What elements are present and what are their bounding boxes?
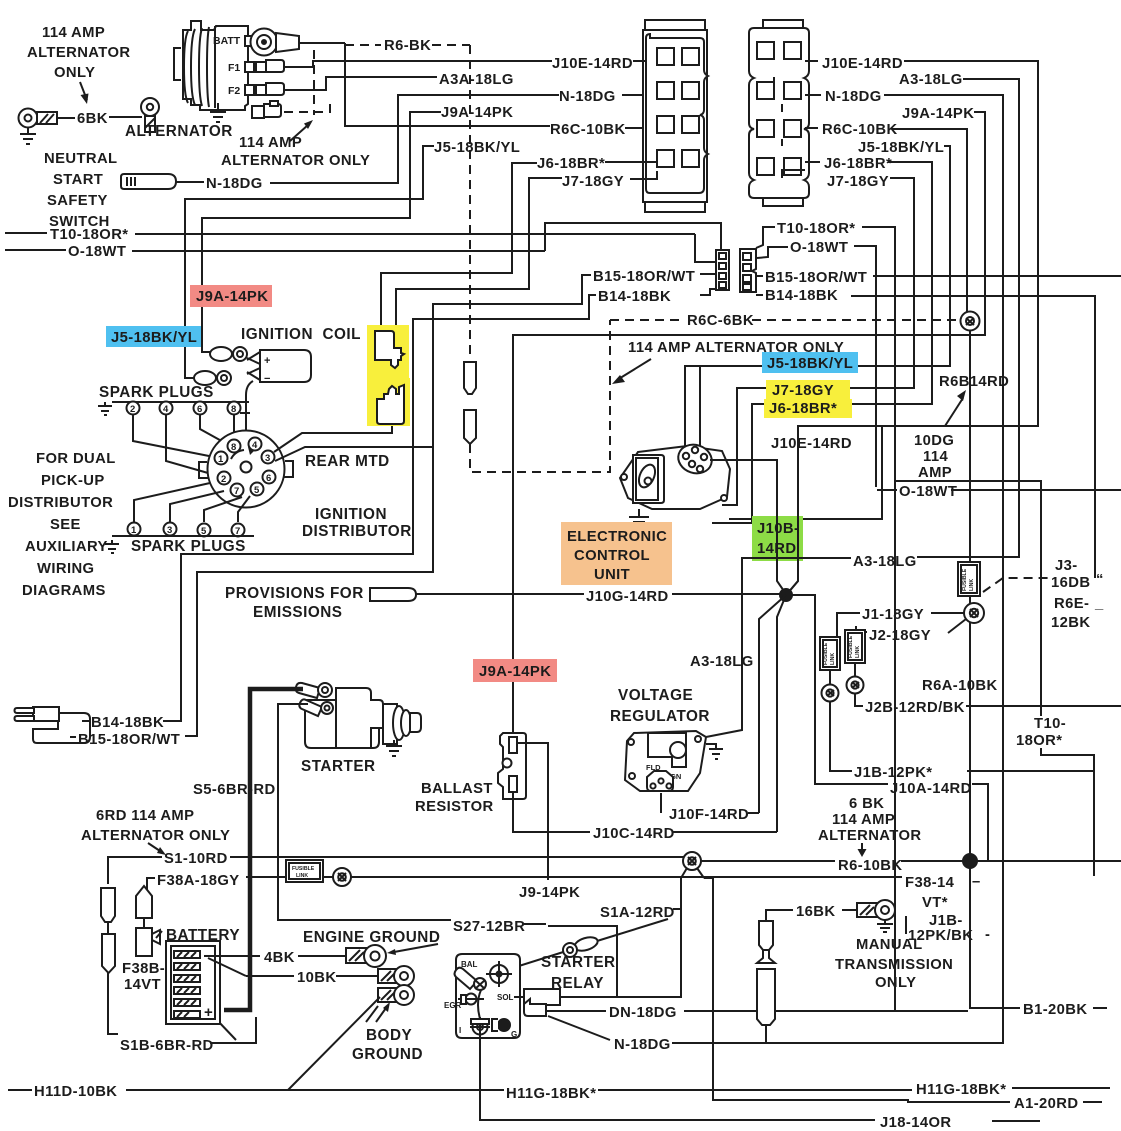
svg-text:–: – <box>972 874 981 890</box>
wire B15 right label stub <box>700 274 763 295</box>
arrow engine ground <box>387 944 438 955</box>
wire coil to distributor cap <box>246 381 253 455</box>
svg-text:ONLY: ONLY <box>54 65 95 81</box>
coil connector block (yellow highlight top) <box>367 325 409 378</box>
svg-text:J5-18BK/YL: J5-18BK/YL <box>858 140 944 156</box>
svg-text:J10E-14RD: J10E-14RD <box>822 56 903 72</box>
wire B14 left run <box>163 295 596 721</box>
wire capsule to J10G <box>416 593 584 595</box>
svg-text:AMP: AMP <box>918 465 952 481</box>
label STARTER RELAY <box>541 954 616 992</box>
svg-text:O-18WT: O-18WT <box>790 240 848 256</box>
wire J2B <box>855 693 1121 706</box>
svg-text:J1-18GY: J1-18GY <box>862 607 924 623</box>
svg-text:DISTRIBUTOR: DISTRIBUTOR <box>302 523 412 540</box>
ground spark plugs bottom <box>105 540 119 553</box>
wire B1-20BK drop <box>970 868 1020 1008</box>
label J7-18GY (yellow highlight) <box>766 380 850 399</box>
wire J10C from dot <box>777 595 786 832</box>
bullet connector F38 <box>333 868 351 886</box>
distributor terminal 6 <box>263 471 276 485</box>
inline connector on R6 run upper <box>464 362 476 394</box>
svg-text:LINK: LINK <box>830 653 836 665</box>
wire J10G <box>672 593 786 595</box>
svg-text:8: 8 <box>231 404 236 415</box>
wire BATT down to R6C row <box>345 43 550 126</box>
svg-text:ELECTRONIC: ELECTRONIC <box>567 529 667 545</box>
wire S1A bracket <box>673 908 681 910</box>
label VOLTAGE REGULATOR <box>610 687 710 725</box>
wire VR pin to J10F <box>661 793 665 813</box>
svg-text:ALTERNATOR ONLY: ALTERNATOR ONLY <box>81 828 230 844</box>
wire BATT diagonal to relay <box>494 919 668 972</box>
svg-text:O-18WT: O-18WT <box>68 244 126 260</box>
svg-text:J6-18BR*: J6-18BR* <box>769 401 837 417</box>
wire switch to N-18DG <box>176 181 204 183</box>
wire J9A label to riser <box>202 112 441 352</box>
svg-text:5: 5 <box>254 485 260 496</box>
wire 4BK from battery <box>204 955 346 957</box>
wire A1 dash <box>1083 1101 1102 1103</box>
fusible link F4 (horizontal) <box>286 860 323 882</box>
fusible link F1 (on R6B) <box>958 562 980 596</box>
wire J1 label link <box>837 613 964 637</box>
wire B15 bottom stub <box>70 736 76 738</box>
svg-text:MANUAL: MANUAL <box>856 937 923 953</box>
spark plug 4 <box>160 402 173 416</box>
bullet connector S1 funnel <box>681 852 704 878</box>
fusible link F2 (J1) <box>820 637 840 670</box>
svg-text:ALTERNATOR: ALTERNATOR <box>818 828 921 844</box>
svg-text:N-18DG: N-18DG <box>614 1037 671 1053</box>
wire O-18WT right stub <box>757 247 788 258</box>
spark plug 7 <box>232 524 245 538</box>
wire F38A bracket <box>147 878 155 893</box>
wire thick battery to starter <box>224 689 303 1010</box>
wire F2 to A3A row <box>284 77 437 90</box>
connector C2 labels <box>822 56 974 190</box>
svg-text:LINK: LINK <box>296 873 308 879</box>
wire bus J9A right <box>513 112 985 733</box>
wire plug7 to distributor <box>238 496 250 522</box>
bullet below F3 <box>847 663 864 694</box>
svg-text:R6C-10BK: R6C-10BK <box>822 122 898 138</box>
junction dot J10 <box>780 589 792 601</box>
svg-text:A3-18LG: A3-18LG <box>690 654 754 670</box>
svg-text:FUSIBLE: FUSIBLE <box>962 568 968 591</box>
spade terminal (dashed 114amp) <box>252 101 281 118</box>
wire T10 right stub <box>756 227 775 248</box>
wire distributor to coil connector B <box>275 447 433 461</box>
wire S1B chain <box>108 922 118 1034</box>
wire T10 stack bracket <box>1041 748 1094 876</box>
svg-text:CONTROL: CONTROL <box>574 548 650 564</box>
distributor terminal 2 <box>218 472 231 486</box>
wire ECU to J10B legs <box>710 460 798 594</box>
svg-text:DISTRIBUTOR: DISTRIBUTOR <box>8 495 113 511</box>
arrow body ground <box>366 1002 390 1022</box>
svg-text:6: 6 <box>266 473 271 484</box>
svg-text:1: 1 <box>218 454 224 465</box>
bullet connector R6C/R6B <box>961 312 980 331</box>
svg-text:H11G-18BK*: H11G-18BK* <box>916 1082 1006 1098</box>
svg-text:B1-20BK: B1-20BK <box>1023 1002 1087 1018</box>
svg-text:FUSIBLE: FUSIBLE <box>848 635 854 658</box>
svg-text:G: G <box>511 1030 517 1039</box>
wire S27 stub <box>524 923 546 925</box>
svg-text:8: 8 <box>231 442 236 453</box>
svg-text:S5-6BR-RD: S5-6BR-RD <box>193 782 276 798</box>
svg-text:H11G-18BK*: H11G-18BK* <box>506 1086 596 1102</box>
svg-text:FUSIBLE: FUSIBLE <box>292 866 315 872</box>
spark plug 8 <box>228 402 241 416</box>
emissions capsule <box>370 588 416 601</box>
wire H11G right segment <box>1012 1087 1110 1089</box>
inline connector on R6 run lower <box>464 410 476 444</box>
wire R6-10BK <box>693 860 1121 862</box>
svg-text:VOLTAGE: VOLTAGE <box>618 687 693 704</box>
svg-text:S1A-12RD: S1A-12RD <box>600 905 675 921</box>
svg-text:114 AMP: 114 AMP <box>42 25 105 41</box>
svg-text:F38-14: F38-14 <box>905 875 955 891</box>
svg-text:S1B-6BR-RD: S1B-6BR-RD <box>120 1038 214 1054</box>
svg-text:J5-18BK/YL: J5-18BK/YL <box>767 356 853 372</box>
wire F1 to J10E row <box>284 61 552 67</box>
svg-text:J10C-14RD: J10C-14RD <box>593 826 675 842</box>
svg-text:R6-10BK: R6-10BK <box>838 858 902 874</box>
wire SOL link <box>514 996 681 998</box>
svg-text:10BK: 10BK <box>297 970 336 986</box>
connector C5 (2-pin bottom left) <box>15 707 91 743</box>
spark plug 5 <box>198 524 211 538</box>
wire plug1 to distributor <box>134 483 210 522</box>
solenoid terminal SOL <box>524 989 560 1005</box>
connector C2 pin stubs <box>774 61 821 178</box>
wire body ground diagonal <box>288 997 380 1090</box>
svg-text:WIRING: WIRING <box>37 561 94 577</box>
svg-text:114 AMP: 114 AMP <box>832 812 895 828</box>
svg-text:J5-18BK/YL: J5-18BK/YL <box>434 140 520 156</box>
wire ballast bottom to J10C <box>513 792 590 832</box>
svg-text:6BK: 6BK <box>77 111 108 127</box>
spark plug 2 <box>127 402 140 416</box>
wire starter to S27 <box>278 704 451 920</box>
svg-text:F1: F1 <box>228 62 240 74</box>
wire O-18WT long <box>5 223 721 253</box>
label J5-18BK/YL (blue highlight mid) <box>762 352 858 373</box>
label J9A-14PK (red highlight) <box>190 285 272 307</box>
svg-text:16DB: 16DB <box>1051 575 1090 591</box>
svg-text:J3-: J3- <box>1055 558 1078 574</box>
wire ballast top to J9 riser <box>517 743 548 880</box>
svg-text:J10F-14RD: J10F-14RD <box>669 807 749 823</box>
connector C1 (left 8-pin) <box>643 20 708 212</box>
wire plug5 to distributor <box>204 497 242 522</box>
arrow to dashed box left side <box>612 359 651 384</box>
svg-text:PICK-UP: PICK-UP <box>41 473 105 489</box>
wire dot to J10F <box>759 595 786 813</box>
svg-text:FUSIBLE: FUSIBLE <box>823 642 829 665</box>
wire B1 dash <box>1093 1007 1107 1009</box>
svg-text:GROUND: GROUND <box>352 1046 423 1063</box>
ground spark plugs top <box>98 402 112 415</box>
label 10DG 114 AMP <box>914 433 954 481</box>
svg-text:ALTERNATOR ONLY: ALTERNATOR ONLY <box>221 153 370 169</box>
distributor terminal 4 <box>249 438 262 452</box>
svg-text:B14-18BK: B14-18BK <box>598 289 671 305</box>
svg-text:J6-18BR*: J6-18BR* <box>537 156 605 172</box>
svg-text:4: 4 <box>163 404 169 415</box>
svg-text:18OR*: 18OR* <box>1016 733 1062 749</box>
svg-text:J10E-14RD: J10E-14RD <box>552 56 633 72</box>
connector C4 (4-pin right) <box>740 249 756 292</box>
svg-text:R6E-: R6E- <box>1054 596 1089 612</box>
wire J18-14OR <box>480 1120 1040 1121</box>
svg-text:I: I <box>459 1026 461 1035</box>
battery BT1 <box>166 941 220 1024</box>
svg-text:ALTERNATOR: ALTERNATOR <box>27 45 130 61</box>
bullet below F2 <box>822 670 839 702</box>
label BODY GROUND <box>352 1027 423 1063</box>
wire A1 drop long <box>704 878 1010 1102</box>
svg-text:J18-14OR: J18-14OR <box>880 1115 951 1131</box>
distributor terminal 3 <box>262 451 275 465</box>
svg-text:A3-18LG: A3-18LG <box>899 72 963 88</box>
svg-text:J2-18GY: J2-18GY <box>869 628 931 644</box>
svg-text:B15-18OR/WT: B15-18OR/WT <box>593 269 695 285</box>
distributor terminal 5 <box>251 483 264 497</box>
svg-text:SEE: SEE <box>50 517 81 533</box>
wire B14 bottom stub <box>82 720 90 722</box>
svg-text:STARTER: STARTER <box>541 954 616 971</box>
svg-text:SPARK PLUGS: SPARK PLUGS <box>99 384 214 401</box>
svg-text:J7-18GY: J7-18GY <box>562 174 624 190</box>
svg-text:S1-10RD: S1-10RD <box>164 851 228 867</box>
label BALLAST RESISTOR <box>415 781 494 815</box>
neutral start safety switch <box>121 174 176 189</box>
wire J10C right link <box>673 831 777 833</box>
svg-text:1: 1 <box>131 525 137 536</box>
wire 6BK <box>57 117 142 118</box>
coil terminal 1 <box>202 307 247 361</box>
svg-text:PROVISIONS FOR: PROVISIONS FOR <box>225 585 364 602</box>
label PROVISIONS FOR EMISSIONS <box>225 585 364 621</box>
svg-text:B14-18BK: B14-18BK <box>765 288 838 304</box>
svg-text:NEUTRAL: NEUTRAL <box>44 151 118 167</box>
connector C1 pin stubs <box>605 61 657 179</box>
svg-text:R6C-10BK: R6C-10BK <box>550 122 626 138</box>
spade terminal F1 <box>256 60 284 72</box>
svg-text:B15-18OR/WT: B15-18OR/WT <box>78 732 180 748</box>
label ELECTRONIC CONTROL UNIT (orange highlight) <box>561 522 672 585</box>
svg-text:J6-18BR*: J6-18BR* <box>824 156 892 172</box>
electronic control unit U1 <box>620 440 730 509</box>
svg-text:A1-20RD: A1-20RD <box>1014 1096 1078 1112</box>
wire R6-BK dashed <box>345 44 470 46</box>
svg-text:114: 114 <box>923 449 948 465</box>
svg-text:N-18DG: N-18DG <box>825 89 882 105</box>
svg-text:REAR MTD: REAR MTD <box>305 453 390 470</box>
svg-text:A3A-18LG: A3A-18LG <box>439 72 514 88</box>
svg-text:R6-BK: R6-BK <box>384 38 431 54</box>
wire 16BK chain bottom <box>765 1025 767 1043</box>
spark plug 3 <box>164 523 177 537</box>
svg-text:J10B-: J10B- <box>757 521 799 537</box>
wire J10A from dot <box>786 595 888 784</box>
svg-text:6: 6 <box>197 404 202 415</box>
svg-text:J9A-14PK: J9A-14PK <box>479 664 551 680</box>
connector BATT terminal <box>251 29 300 56</box>
wire J10A right end <box>972 784 988 861</box>
wire J7 to coil connector <box>396 178 562 331</box>
label F38-14 VT* J1B-12PK/BK <box>905 874 990 944</box>
wire J2 diagonal to bullet <box>948 619 966 633</box>
wire 10BK <box>208 958 378 976</box>
label F38B-14VT <box>122 961 165 993</box>
svg-text:+: + <box>264 355 270 367</box>
fuse holder F38B lower <box>136 928 162 956</box>
wire distributor to coil connector A <box>274 423 392 452</box>
wire plug8 to distributor <box>233 415 235 440</box>
arrow R6B14RD <box>945 390 966 426</box>
svg-text:LINK: LINK <box>855 646 861 658</box>
wire N-18DG riser <box>270 95 559 183</box>
wire bus J5 <box>685 146 950 450</box>
spade terminal F2 <box>256 83 284 95</box>
svg-text:DIAGRAMS: DIAGRAMS <box>22 583 106 599</box>
svg-text:J7-18GY: J7-18GY <box>772 383 834 399</box>
svg-text:START: START <box>53 172 103 188</box>
svg-text:2: 2 <box>130 404 135 415</box>
wire DN-18DG <box>546 1010 968 1012</box>
wire R6 BATT lead <box>299 42 345 44</box>
connector C2 (right 8-pin) <box>749 20 809 206</box>
coil connector block (yellow highlight bottom) <box>367 378 410 426</box>
svg-text:SPARK PLUGS: SPARK PLUGS <box>131 538 246 555</box>
wire F38 long <box>246 876 902 878</box>
label J3-16DB R6E-12BK <box>1051 558 1104 631</box>
label 6BK 114 AMP ALTERNATOR <box>818 796 921 844</box>
svg-text:J9-14PK: J9-14PK <box>519 885 580 901</box>
svg-text:-: - <box>985 927 990 943</box>
wire spark plug bus bottom <box>112 535 254 537</box>
svg-text:2: 2 <box>221 474 226 485</box>
wire plug6 to distributor <box>200 415 227 444</box>
connector C1 labels <box>434 56 633 190</box>
inline connector S1 chain upper <box>101 888 115 922</box>
wire J10F right link <box>748 812 759 814</box>
svg-text:3: 3 <box>265 453 270 464</box>
wire relay I post down <box>480 1034 875 1120</box>
svg-text:J1B-: J1B- <box>929 913 963 929</box>
wire bus J7 <box>722 178 914 505</box>
inline connector 16BK upper <box>759 921 773 950</box>
dashed 114amp alternator box <box>284 50 330 115</box>
distributor terminal 1 <box>215 452 228 466</box>
wire plug4 to distributor <box>166 415 215 475</box>
wire J6 to coil connector <box>381 163 537 332</box>
relay tab DN <box>524 999 546 1016</box>
wire bus J10E <box>787 61 1038 594</box>
wire S1-10RD <box>108 857 684 884</box>
svg-text:BAL: BAL <box>461 960 478 969</box>
114 AMP ALTERNATOR ONLY note (top left) <box>27 25 130 104</box>
ignition coil body <box>247 350 311 385</box>
svg-text:EGR: EGR <box>444 1001 462 1010</box>
ground G1 (left ring terminal) <box>19 109 58 145</box>
svg-text:114 AMP: 114 AMP <box>239 135 302 151</box>
svg-text:J1B-12PK*: J1B-12PK* <box>854 765 932 781</box>
connector C3 (4-pin left) <box>716 250 729 290</box>
wire ECU to bus right <box>729 426 882 519</box>
svg-text:T10-: T10- <box>1034 716 1066 732</box>
svg-text:B14-18BK: B14-18BK <box>91 715 164 731</box>
dashed J3 link <box>983 578 1049 592</box>
svg-text:T10-18OR*: T10-18OR* <box>50 227 128 243</box>
wire B14 right long <box>851 296 1095 578</box>
inline connector S1 chain lower <box>102 934 115 973</box>
coil terminal 2 <box>185 347 231 385</box>
wire J1B <box>830 701 1094 771</box>
label J6-18BR* (yellow highlight) <box>764 399 852 418</box>
svg-text:F38B-: F38B- <box>122 961 165 977</box>
svg-text:J2B-12RD/BK: J2B-12RD/BK <box>865 700 965 716</box>
wire bus A3 <box>917 79 1019 557</box>
ground ECU <box>629 509 649 527</box>
svg-text:F2: F2 <box>228 85 240 97</box>
svg-text:J9A-14PK: J9A-14PK <box>196 289 268 305</box>
note FOR DUAL PICK-UP DISTRIBUTOR <box>8 451 116 599</box>
svg-text:J7-18GY: J7-18GY <box>827 174 889 190</box>
svg-text:−: − <box>264 373 270 385</box>
distributor terminal 8 <box>228 440 241 454</box>
svg-text:J9A-14PK: J9A-14PK <box>902 106 974 122</box>
label J10B-14RD (green highlight) <box>752 516 803 561</box>
wire plug3 to distributor <box>170 491 224 522</box>
svg-text:F38A-18GY: F38A-18GY <box>157 873 240 889</box>
ballast resistor R1 <box>498 733 526 799</box>
ring terminal 10BK <box>378 966 414 986</box>
dashed vertical R6 run lower <box>470 320 610 472</box>
inline connector 16BK lower <box>757 969 775 1025</box>
svg-text:6 BK: 6 BK <box>849 796 884 812</box>
ring terminal body ground <box>378 985 414 1005</box>
svg-text:6RD 114 AMP: 6RD 114 AMP <box>96 808 194 824</box>
ring terminal engine ground <box>346 945 386 967</box>
wire B15 right long <box>873 275 1121 277</box>
wire spark plug bus top <box>112 402 250 413</box>
svg-text:3: 3 <box>167 525 172 536</box>
wire B15 left run <box>185 275 591 736</box>
svg-text:4BK: 4BK <box>264 950 295 966</box>
svg-text:14VT: 14VT <box>124 977 161 993</box>
label T10-18OR* (right stack) <box>1016 716 1066 749</box>
svg-text:A3-18LG: A3-18LG <box>853 554 917 570</box>
svg-text:VT*: VT* <box>922 895 948 911</box>
svg-text:N-18DG: N-18DG <box>206 176 263 192</box>
svg-text:ENGINE GROUND: ENGINE GROUND <box>303 929 440 946</box>
svg-text:R6A-10BK: R6A-10BK <box>922 678 998 694</box>
svg-text:STARTER: STARTER <box>301 758 376 775</box>
wire S1A drop <box>558 878 681 997</box>
neutral start safety switch label <box>44 151 118 230</box>
svg-text:H11D-10BK: H11D-10BK <box>34 1084 117 1100</box>
arrow 6BK <box>858 843 867 857</box>
label J5-18BK/YL (blue highlight) <box>106 326 201 347</box>
wire R6B down to junction <box>969 330 971 858</box>
arrow 6RD <box>148 843 166 855</box>
ground VR <box>706 744 723 759</box>
